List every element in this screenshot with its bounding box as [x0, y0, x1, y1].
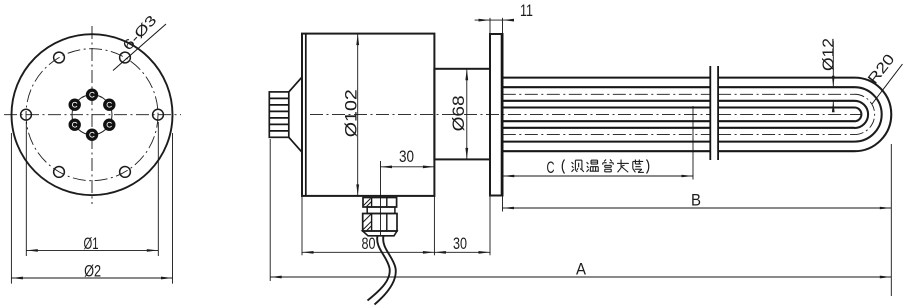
heating tube line 3 (y=100.8) [503, 100, 711, 102]
bolt hole 3 (6-O3) [54, 52, 65, 63]
11 dimension line [475, 19, 513, 21]
O102 arrow top [356, 34, 359, 46]
O2 arrow left [11, 277, 23, 280]
O68 arrow bottom [465, 148, 468, 160]
label C text - close paren [647, 160, 649, 174]
pin pitch circle [72, 95, 112, 135]
gland top nut [363, 198, 397, 208]
svg-text:30: 30 [399, 148, 414, 166]
C arrow right [682, 175, 694, 178]
label C text - CJK chang(length) [617, 160, 629, 173]
gland top nut hatch [364, 199, 371, 206]
flange right face thick line [501, 34, 504, 196]
A dimension line [270, 276, 891, 278]
80 arrow right [423, 251, 435, 254]
bolt hole 1 (6-O3) [153, 109, 164, 120]
connector taper bottom line [289, 137, 302, 152]
O68 dimension line [466, 69, 468, 160]
heating tube line 8 (y=151.2) [503, 150, 711, 152]
80 extension line left [301, 196, 303, 255]
O102 dimension line [357, 34, 359, 196]
bolt hole 4 (6-O3) [21, 109, 32, 120]
cable wire inner [375, 236, 396, 305]
svg-text:Ø1: Ø1 [84, 235, 99, 253]
O2 extension line right [172, 133, 174, 284]
gland neck band [367, 207, 395, 214]
tube centerline 1 (dash-dot) [503, 93, 711, 95]
connector taper top line [289, 77, 302, 92]
heating tube line 4 (y=107.5) [503, 106, 711, 108]
11 extension line right [502, 18, 504, 34]
terminal pin 4 [69, 119, 81, 131]
gland lower nut hatch [363, 214, 371, 222]
heating tube line 6 (y=127.8) [503, 127, 711, 129]
gland bottom taper [363, 231, 397, 236]
B dimension line [503, 207, 892, 209]
neck O68 [434, 69, 490, 160]
outer flange circle O2 [12, 34, 173, 195]
flange plate [490, 34, 503, 196]
flange-left extension line [489, 196, 491, 255]
svg-text:R20: R20 [865, 51, 899, 87]
spacer plate left line [709, 66, 711, 160]
terminal pin 6 [103, 119, 115, 131]
O2 arrow right [161, 277, 173, 280]
bolt hole 5 (6-O3) [54, 167, 65, 178]
gland lower nut [363, 214, 397, 232]
leader line for 6-O3 [113, 24, 166, 71]
A extension line left [269, 139, 271, 281]
svg-text:Ø102: Ø102 [342, 89, 360, 137]
svg-text:11: 11 [520, 2, 533, 20]
upper 30 arrow left [381, 166, 393, 169]
ribbed connector block [269, 92, 289, 137]
80 arrow left [302, 251, 314, 254]
bolt hole 2 (6-O3) [120, 52, 131, 63]
svg-text:Ø2: Ø2 [84, 263, 101, 281]
C arrow left [503, 175, 515, 178]
gland center extension line [380, 161, 382, 236]
B extension line right [890, 144, 892, 296]
O12 leader line [832, 41, 834, 87]
terminal pin 1 [103, 99, 115, 111]
B arrow left [503, 207, 515, 210]
O1 dimension line [26, 249, 158, 251]
heating tube line 2 (y=87.2) [503, 86, 711, 88]
O1 extension line left [25, 122, 27, 256]
U-bend arc r=36.8 [855, 78, 892, 152]
B arrow right [880, 207, 892, 210]
label C text - open paren [562, 160, 564, 174]
cable wire outer [368, 236, 390, 301]
B extension line left [502, 197, 504, 212]
main centerline [310, 113, 710, 115]
O1 extension line right [157, 122, 159, 256]
tube centerline 2 (dash-dot) [503, 134, 711, 136]
terminal pin 2 [86, 89, 98, 101]
11 arrow right [503, 19, 515, 22]
U-bend arc r=6.9 [855, 108, 862, 122]
lower 30 dimension line [434, 251, 490, 253]
O2 extension line left [10, 133, 12, 284]
O102 arrow bottom [356, 184, 359, 196]
O68 arrow top [465, 69, 468, 81]
U-bend arc r=13.6 [855, 101, 869, 128]
svg-text:30: 30 [453, 235, 467, 253]
O2 dimension line [11, 277, 172, 279]
heating tube line 1 (y=77.6) [503, 77, 711, 79]
11 extension line left [489, 18, 491, 34]
housing body O102 [302, 34, 434, 196]
heating tube line 5 (y=121.2) [503, 120, 711, 122]
O1 arrow left [26, 249, 38, 252]
A arrow right [880, 276, 892, 279]
U-bend centerline arc (dash-dot) [855, 94, 875, 134]
lower 30 arrow left [434, 251, 446, 254]
left view vertical centerline [91, 26, 93, 204]
U-bend arc r=27.2 [855, 87, 882, 141]
svg-text:Ø68: Ø68 [450, 95, 468, 131]
svg-text:C: C [547, 159, 555, 177]
O12 arrow down [832, 76, 835, 88]
label C text - CJK du(degree) [633, 160, 644, 173]
bolt circle (dash-dot) O1 [26, 49, 158, 181]
bolt hole 6 (6-O3) [120, 167, 131, 178]
svg-text:Ø12: Ø12 [821, 38, 838, 71]
label C text - CJK wen(temperature) [587, 160, 599, 172]
svg-text:A: A [576, 261, 586, 279]
upper 30 arrow right [423, 166, 435, 169]
housing body inner left line [305, 34, 307, 196]
label C text - CJK guan(tube) [603, 160, 613, 172]
spacer plate right line [717, 66, 719, 160]
label C text - CJK ce(measure) [572, 160, 584, 172]
lower 30 arrow right [479, 251, 491, 254]
terminal pin 5 [86, 129, 98, 141]
terminal pin 3 [69, 99, 81, 111]
svg-text:B: B [691, 192, 701, 210]
80 dimension line [302, 251, 434, 253]
O1 arrow right [147, 249, 159, 252]
O12 arrow up [832, 101, 835, 113]
11 arrow left [479, 19, 491, 22]
body edge extension line [433, 196, 435, 255]
C extension line [692, 106, 694, 180]
upper 30 dimension line [381, 166, 435, 168]
R20 leader line [872, 64, 903, 104]
C dimension line [503, 175, 693, 177]
A arrow left [270, 276, 282, 279]
svg-text:80: 80 [362, 235, 376, 253]
heating tube line 7 (y=141.6) [503, 141, 711, 143]
left view horizontal centerline [4, 114, 181, 116]
